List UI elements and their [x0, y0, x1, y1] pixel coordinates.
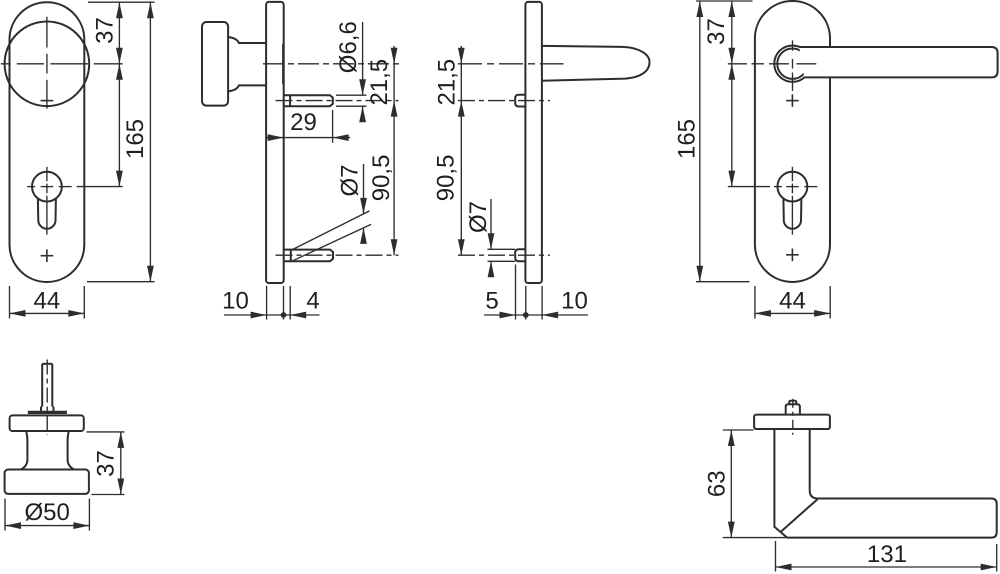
svg-text:Ø50: Ø50: [25, 499, 70, 526]
view6 miter edge line: [781, 499, 818, 532]
svg-text:5: 5: [485, 288, 498, 315]
view1 dim 44 extension lines: [9, 286, 11, 319]
view6 dim 63 extension lines: [723, 429, 754, 431]
svg-text:29: 29: [290, 109, 317, 136]
view1 knob vertical centerline: [46, 17, 48, 48]
view5 spindle shaft: [41, 364, 43, 407]
view6 spindle stub: [786, 404, 800, 414]
view4 plate outline (44x165 stadium): [755, 1, 830, 282]
view2 dim O6,6 extension lines: [336, 94, 367, 96]
view3 lower fixing clip: [515, 249, 525, 261]
view6 dim 63 line: [730, 430, 732, 538]
view4 lever neck inner circle: [777, 49, 807, 79]
svg-text:10: 10: [222, 288, 249, 315]
svg-text:37: 37: [93, 450, 120, 477]
svg-text:44: 44: [34, 288, 61, 315]
view2 knob axis centerline: [263, 63, 399, 65]
view3 dim 5/10 line: [484, 314, 588, 316]
svg-text:21,5: 21,5: [366, 59, 393, 106]
svg-text:21,5: 21,5: [434, 59, 461, 106]
view4 dim 37 line: [731, 1, 733, 64]
view4 dim 44 line: [755, 312, 830, 314]
svg-text:165: 165: [122, 119, 149, 159]
view5 knob neck left edge: [21, 431, 28, 470]
svg-text:37: 37: [703, 18, 730, 45]
svg-text:37: 37: [92, 17, 119, 44]
svg-text:Ø7: Ø7: [465, 201, 492, 233]
view3 dim 21,5 / 90,5 line: [460, 46, 462, 255]
svg-text:10: 10: [561, 288, 588, 315]
view4 dim 44 extension lines: [754, 286, 756, 319]
view2 dim 29 line+arrows: [266, 137, 350, 139]
view2 plate profile: [266, 2, 284, 283]
svg-text:90,5: 90,5: [368, 155, 395, 202]
view3 dim O7 extension lines: [488, 248, 516, 250]
view2 upper screw M6.6: [284, 95, 333, 106]
view1 keyhole horizontal centerline: [27, 186, 35, 188]
view1 top extension line: [88, 1, 155, 3]
svg-text:63: 63: [704, 470, 731, 497]
view6 rose plate: [754, 415, 830, 429]
view2 dim O7 oblique extension lines: [292, 211, 369, 250]
view2 knob face: [202, 22, 228, 106]
view4 lever neck outer circle: [774, 46, 810, 82]
view2 dim O6,6 line+arrows: [362, 22, 364, 95]
view1 plate outline (44x165 stadium): [10, 2, 85, 282]
view5 knob grip O50: [5, 470, 89, 494]
view5 knob base rose O44: [10, 415, 84, 431]
view2 knob neck bottom edge: [228, 85, 266, 91]
view5 knob neck right edge: [68, 431, 75, 470]
svg-text:90,5: 90,5: [433, 155, 460, 202]
view3 lever grip tongue: [542, 46, 650, 81]
view4 bottom extension line: [696, 281, 750, 283]
view3 plate profile: [525, 2, 542, 283]
view4 top extension line: [696, 0, 753, 2]
view5 washer plate (bold): [28, 411, 67, 414]
view1 cylinder keyhole: [32, 172, 62, 202]
view4 cylinder keyhole: [778, 172, 808, 202]
view5 dim O50 extension lines: [4, 499, 6, 531]
view1 bottom extension line: [87, 281, 155, 283]
view4 lever vertical centerline: [792, 40, 794, 50]
view6 dim 131 line: [776, 566, 997, 568]
view4 chain dim line lever-to-cylinder: [731, 64, 733, 187]
view5 dim 37 line: [120, 432, 122, 495]
view6 spindle centerline: [792, 399, 794, 435]
view2 dim O7 line+arrows: [363, 164, 365, 214]
view1 dim 165 line: [149, 2, 151, 282]
view4 dim 165 line: [699, 1, 701, 282]
view2 dim 29 extension line: [332, 110, 334, 143]
view4 lever grip bar fill: [799, 47, 997, 77]
view4 lever horizontal centerline: [728, 63, 747, 65]
view1 chain dim line knob-to-cylinder: [118, 64, 120, 187]
svg-text:165: 165: [674, 119, 701, 159]
view2 knob neck top edge: [228, 37, 266, 43]
svg-text:Ø6,6: Ø6,6: [335, 21, 362, 73]
view1 dim 37 line: [118, 2, 120, 64]
view2 upper screw centerline: [276, 100, 399, 102]
view2 lower screw M7: [284, 250, 333, 262]
svg-text:Ø7: Ø7: [337, 164, 364, 196]
svg-text:44: 44: [779, 288, 806, 315]
view3 upper screw centerline: [458, 100, 550, 102]
view1 upper screw cross arm: [41, 100, 54, 102]
view1 knob circle O50: [5, 22, 90, 107]
view5 spindle centerline: [46, 360, 48, 436]
view2 dim 10/4 line: [224, 314, 320, 316]
view5 dim O50 line: [5, 525, 89, 527]
view3 lever axis centerline: [458, 63, 564, 65]
view1 keyhole vertical centerline: [46, 167, 48, 181]
view2 lower screw centerline: [276, 254, 399, 256]
view4 lower screw cross: [786, 254, 799, 256]
view4 keyhole vertical centerline: [791, 167, 793, 181]
view6 spindle cap: [789, 401, 796, 405]
view4 lever grip bar outline: [799, 47, 997, 77]
view2 bottom extension lines: [266, 286, 268, 320]
view1 dim 44 line: [10, 312, 85, 314]
view2 plate hole edge (bold): [282, 44, 284, 84]
svg-text:131: 131: [867, 541, 907, 568]
view3 dim O7 line+arrows: [490, 199, 492, 249]
view2 dim 21,5 / 90,5 line: [393, 46, 395, 255]
view4 keyhole horizontal centerline: [728, 186, 770, 188]
view1 knob horizontal centerline: [1, 63, 11, 65]
view5 spindle collar: [40, 407, 42, 411]
view6 dim 131 extension lines: [775, 541, 777, 572]
view1 lower screw cross: [41, 255, 54, 257]
view3 upper fixing clip: [515, 95, 525, 107]
view4 upper screw cross: [786, 100, 799, 102]
view6 lever body outline: [774, 429, 996, 538]
view3 lower screw centerline: [458, 254, 550, 256]
svg-text:4: 4: [306, 288, 319, 315]
view3 bottom extension lines: [515, 265, 517, 320]
view5 dim 37 extension lines: [87, 431, 125, 433]
